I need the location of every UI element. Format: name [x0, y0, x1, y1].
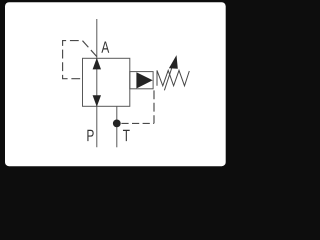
- spring (zigzag): [157, 70, 189, 85]
- wire: port T vertical line: [116, 106, 118, 147]
- label T: [123, 130, 130, 141]
- white drawing area: [5, 2, 226, 166]
- check triangle (filled, pointing right): [136, 72, 152, 88]
- wire: port A / P vertical line: [96, 19, 98, 147]
- flow arrowhead down (inside valve, tip at P side): [93, 95, 101, 107]
- pilot stage box (tab on right of valve body): [130, 72, 153, 89]
- label A: [101, 41, 109, 52]
- adjustment arrowhead: [169, 55, 178, 69]
- label P: [87, 130, 93, 141]
- pilot line dashed (left loop to port A): [63, 41, 97, 79]
- junction dot on T line: [113, 120, 121, 128]
- drain line dashed vertical (right, from pilot stage): [153, 90, 155, 123]
- valve body square: [83, 58, 130, 106]
- adjustment arrow shaft: [164, 67, 172, 91]
- flow arrowhead up (inside valve, tip at A side): [93, 58, 101, 70]
- frame background: [0, 0, 230, 171]
- drain line dashed horizontal (to T junction): [121, 122, 154, 124]
